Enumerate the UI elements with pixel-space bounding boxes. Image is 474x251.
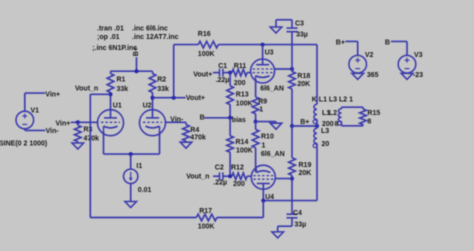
svg-text:K L1 L3 L2 1: K L1 L3 L2 1 <box>312 96 353 103</box>
wire Vout_n left <box>90 93 110 95</box>
svg-text:R9: R9 <box>258 98 267 105</box>
ground C3 <box>270 27 282 33</box>
svg-text:B: B <box>385 39 390 46</box>
svg-text:U2: U2 <box>143 103 152 110</box>
wire U1 cathode down <box>103 131 105 154</box>
svg-text:Vin-: Vin- <box>46 128 60 135</box>
junction U3 screen <box>290 67 294 71</box>
wire secondary top <box>342 106 364 108</box>
svg-text:R1: R1 <box>117 77 126 84</box>
wire V1 plus up <box>24 93 26 111</box>
wire U2 plate <box>152 98 154 118</box>
wire C4 bottom <box>291 218 293 226</box>
junction bias <box>228 116 232 120</box>
wire secondary bottom <box>342 125 364 127</box>
svg-text:Vin+: Vin+ <box>56 121 71 128</box>
inductor L1 <box>313 104 334 128</box>
svg-text:L3: L3 <box>321 128 329 135</box>
triode U2 <box>140 103 166 136</box>
wire U2 cathode down <box>159 131 161 154</box>
resistor R10 <box>252 122 274 173</box>
svg-text:33µ: 33µ <box>296 32 308 39</box>
svg-text:B: B <box>200 115 205 122</box>
svg-text:R15: R15 <box>367 110 380 117</box>
wire C2 to R12 <box>223 175 232 177</box>
triode U1 <box>98 103 124 136</box>
svg-text:8: 8 <box>335 121 339 128</box>
wire U3 plate lead <box>262 45 264 65</box>
svg-text:C1: C1 <box>218 63 227 70</box>
svg-text:Vin+: Vin+ <box>45 91 60 98</box>
svg-text:6l6_AN: 6l6_AN <box>260 86 284 93</box>
wire R1-R2 top rail <box>111 70 153 72</box>
capacitor C3 <box>287 21 308 39</box>
wire B+ stub <box>136 57 138 71</box>
svg-text:200: 200 <box>234 80 246 87</box>
svg-text:.inc 12AT7.inc: .inc 12AT7.inc <box>132 34 179 41</box>
svg-text:33k: 33k <box>117 86 129 93</box>
wire Vout+ rail <box>153 97 186 99</box>
svg-text:8: 8 <box>367 118 371 125</box>
ground R9/R10 <box>270 123 282 129</box>
svg-text:Vin-: Vin- <box>170 116 184 123</box>
junction cathode/I1 <box>129 152 133 156</box>
current source I1 <box>124 163 152 194</box>
svg-text:R3: R3 <box>84 127 93 134</box>
wire V1 minus down <box>24 129 26 131</box>
svg-text:U3: U3 <box>265 50 274 57</box>
svg-text:R4: R4 <box>190 127 199 134</box>
svg-text:.22µ: .22µ <box>216 77 230 84</box>
junction U4 plate <box>261 199 265 203</box>
capacitor C2 <box>213 164 227 186</box>
junction R9/R10/gnd <box>254 120 258 124</box>
junction U1 plate/Vout_n <box>109 92 113 96</box>
pentode U3 <box>251 50 284 93</box>
svg-text:U1: U1 <box>113 103 122 110</box>
svg-text:100K: 100K <box>236 101 253 108</box>
wire U3 screen right <box>274 68 292 70</box>
svg-text:V1: V1 <box>31 108 40 115</box>
resistor R1 <box>107 71 128 94</box>
resistor R4 <box>183 122 206 142</box>
wire R16 left <box>174 44 199 46</box>
svg-text:R19: R19 <box>299 162 312 169</box>
svg-text:33µ: 33µ <box>294 221 306 228</box>
capacitor C4 <box>287 210 307 228</box>
wire I1 bottom <box>130 184 132 202</box>
wire B+ to V2 <box>345 40 357 42</box>
ground R3 <box>72 143 84 149</box>
svg-text:R2: R2 <box>157 77 166 84</box>
resistor R2 <box>149 71 169 98</box>
junction U3 plate <box>261 43 265 47</box>
svg-text:20: 20 <box>322 141 330 148</box>
svg-text:L2: L2 <box>329 110 337 117</box>
svg-text:365: 365 <box>367 72 379 79</box>
wire R12 to U4 grid <box>247 175 252 177</box>
svg-text:33k: 33k <box>157 86 169 93</box>
wire C3 top <box>291 20 293 28</box>
junction Vout+/R16 <box>172 96 176 100</box>
svg-text:Vout+: Vout+ <box>193 71 212 78</box>
wire C4 column <box>291 179 293 215</box>
wire V1 bottom right <box>25 129 46 131</box>
wire Vout_n to C2 <box>213 175 220 177</box>
svg-text:R16: R16 <box>198 31 211 38</box>
wire transformer bottom <box>316 148 318 201</box>
svg-text:470k: 470k <box>190 135 206 142</box>
svg-text:.inc 6l6.inc: .inc 6l6.inc <box>132 26 168 33</box>
wire transformer to U4 plate <box>263 200 317 202</box>
wire Vin+ to U1 grid <box>71 121 99 123</box>
svg-text:R17: R17 <box>199 208 212 215</box>
svg-text:B+: B+ <box>133 47 140 56</box>
junction B+/transformer <box>315 124 319 128</box>
svg-text:U4: U4 <box>265 194 274 201</box>
junction C1/R13 <box>228 71 232 75</box>
wire V1 top right <box>25 92 45 94</box>
voltage source V1 <box>0 108 47 148</box>
junction B+ stub <box>135 69 139 73</box>
ground R4 <box>180 142 192 148</box>
svg-text:100K: 100K <box>236 148 253 155</box>
wire C3 column <box>291 32 293 69</box>
svg-text:6l6_AN: 6l6_AN <box>261 151 285 158</box>
wire C1 to R11 <box>223 72 232 74</box>
resistor R18 <box>289 69 311 126</box>
wire transformer top down <box>316 45 318 105</box>
svg-text:100K: 100K <box>198 51 215 58</box>
junction C2/R14 <box>228 174 232 178</box>
svg-text:100K: 100K <box>198 223 215 230</box>
svg-text:V3: V3 <box>414 52 423 59</box>
svg-text:Vout+: Vout+ <box>186 95 205 102</box>
resistor R15 load <box>360 109 381 126</box>
svg-text:470k: 470k <box>84 136 100 143</box>
wire bottom rail up <box>262 201 264 218</box>
wire Vout+ to C1 <box>213 72 220 74</box>
svg-text:Vout_n: Vout_n <box>75 86 98 93</box>
svg-text:R10: R10 <box>261 133 274 140</box>
inductor L3 <box>313 126 329 148</box>
svg-text:1: 1 <box>262 142 266 149</box>
svg-text:20K: 20K <box>299 170 312 177</box>
svg-text:200: 200 <box>322 121 334 128</box>
svg-text:200: 200 <box>233 181 245 188</box>
svg-text:C4: C4 <box>293 210 302 217</box>
svg-text:SINE(0 2 1000): SINE(0 2 1000) <box>0 140 47 147</box>
wire U2 grid right <box>165 121 186 123</box>
svg-text:B+: B+ <box>336 39 345 46</box>
svg-text:-23: -23 <box>413 72 423 79</box>
resistor R9 <box>252 80 267 122</box>
svg-text:bias: bias <box>232 117 246 124</box>
junction U2 plate/Vout+ <box>151 96 155 100</box>
svg-text:.tran .01: .tran .01 <box>97 26 124 33</box>
svg-text:;.inc 6N1P.inc: ;.inc 6N1P.inc <box>92 45 137 52</box>
svg-text:V2: V2 <box>365 52 374 59</box>
ground V3 <box>401 73 413 79</box>
wire I1 top <box>130 154 132 169</box>
inductor L2 secondary <box>329 107 342 128</box>
ground V2 <box>352 73 364 79</box>
wire U4 plate lead <box>262 184 264 201</box>
wire B+ rail <box>292 125 317 127</box>
resistor R12 <box>231 165 247 188</box>
capacitor C1 <box>216 63 230 84</box>
wire U4 screen right <box>275 178 292 180</box>
resistor R19 <box>289 126 312 179</box>
voltage source V2 <box>349 52 379 79</box>
voltage source V3 <box>398 52 423 79</box>
svg-text:R18: R18 <box>297 73 310 80</box>
resistor R17 <box>196 208 217 230</box>
svg-text:I1: I1 <box>136 163 142 170</box>
svg-text:.22µ: .22µ <box>213 179 227 186</box>
wire plate rail top <box>218 44 317 46</box>
wire bottom rail left <box>90 217 196 219</box>
svg-text:C3: C3 <box>295 21 304 28</box>
wire cathode rail <box>104 153 160 155</box>
resistor R14 <box>227 118 253 176</box>
resistor R16 <box>198 31 219 58</box>
svg-text:Vout_n: Vout_n <box>186 173 209 180</box>
pentode U4 <box>251 151 284 201</box>
wire R16 vertical <box>173 45 175 98</box>
svg-text:;op .01: ;op .01 <box>97 34 120 41</box>
junction R18/B+ <box>290 124 294 128</box>
svg-text:R12: R12 <box>231 165 244 172</box>
resistor R3 <box>75 122 100 143</box>
resistor R13 <box>227 73 253 118</box>
wire U1 plate <box>110 94 112 118</box>
junction U4 screen <box>290 177 294 181</box>
svg-text:C2: C2 <box>215 164 224 171</box>
svg-text:R11: R11 <box>234 63 247 70</box>
svg-text:R13: R13 <box>236 91 249 98</box>
wire R11 to U3 grid <box>247 72 250 74</box>
svg-text:R14: R14 <box>236 139 249 146</box>
resistor R11 <box>232 63 247 87</box>
ground I1 <box>125 202 137 208</box>
wire B to bias junction <box>205 117 231 119</box>
wire Vout_n down feedback <box>89 94 91 217</box>
ground C4 <box>272 232 284 238</box>
wire cathode gnd <box>256 121 276 123</box>
wire B to V3 <box>391 40 407 42</box>
svg-text:0.01: 0.01 <box>138 187 152 194</box>
svg-text:20K: 20K <box>297 81 310 88</box>
wire bottom rail right <box>217 217 263 219</box>
junction Vin+/R3 <box>76 120 80 124</box>
svg-text:1: 1 <box>259 107 263 114</box>
svg-text:B+: B+ <box>300 119 309 126</box>
